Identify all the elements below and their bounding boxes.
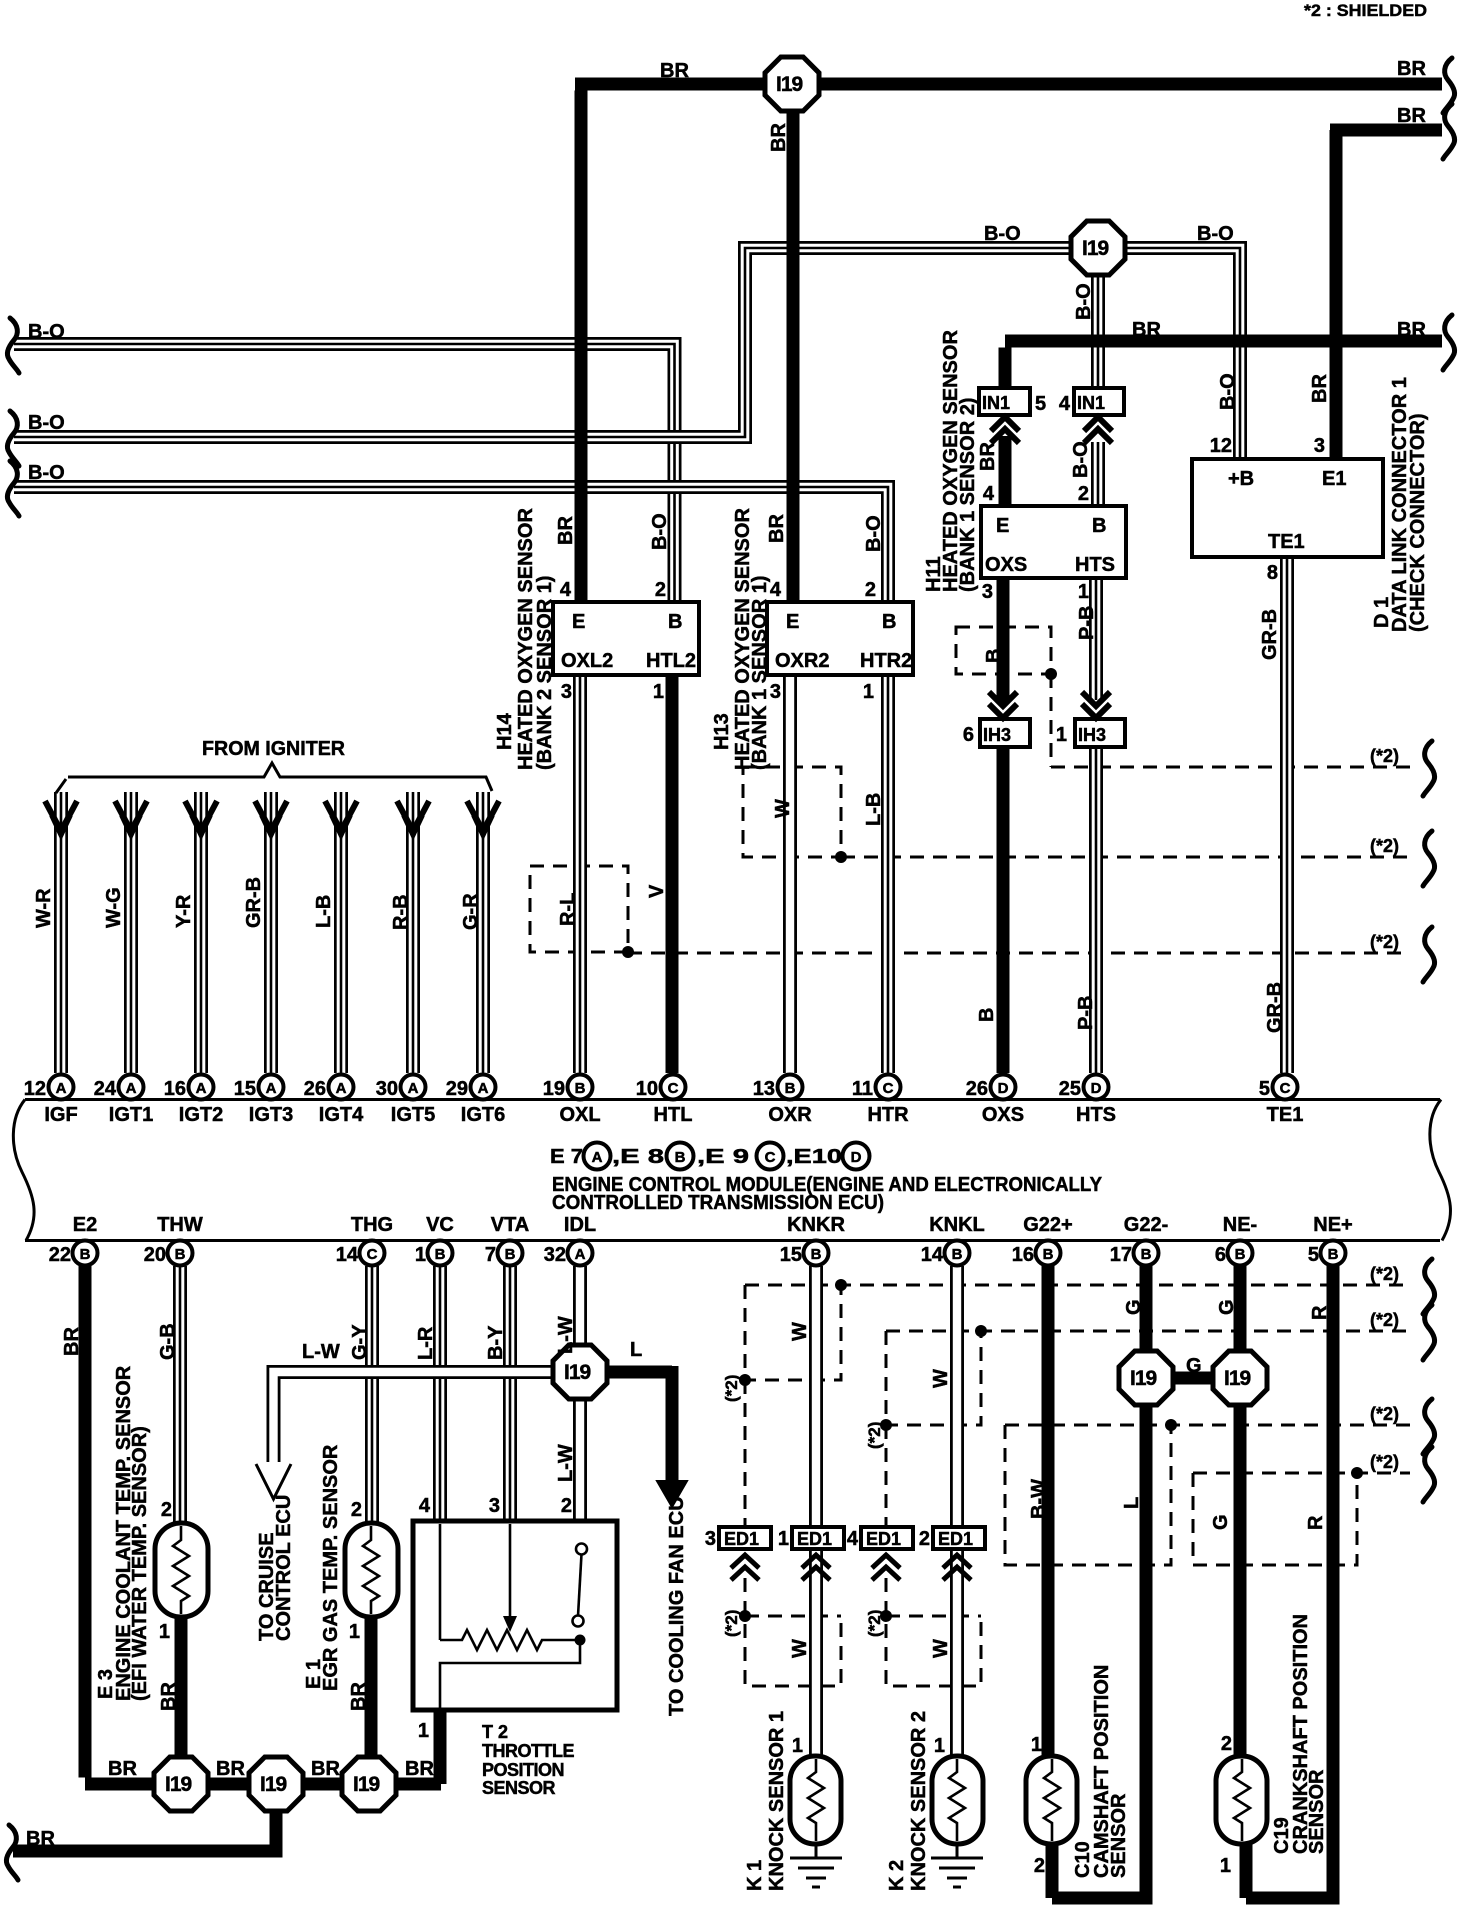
svg-text:B: B (811, 1246, 822, 1263)
wire KNKR double (809, 1266, 823, 1756)
svg-text:POSITION: POSITION (482, 1760, 564, 1780)
ECM band bottom edge (25, 1239, 1440, 1242)
svg-text:C: C (883, 1080, 894, 1097)
svg-text:BR: BR (977, 442, 999, 471)
svg-text:E: E (572, 611, 585, 633)
svg-text:L-W: L-W (555, 1316, 577, 1354)
svg-text:*2 : SHIELDED: *2 : SHIELDED (1304, 1, 1427, 20)
arrow into IN1-4 (1084, 417, 1112, 443)
svg-text:E1: E1 (1322, 468, 1346, 490)
shield dashed box H11 B wire (956, 627, 1051, 674)
arrow to cooling fan ECU (657, 1481, 687, 1507)
svg-text:4: 4 (560, 579, 572, 601)
connector IN1 box 4 (1074, 388, 1124, 415)
brace BR right 2 (1443, 104, 1455, 159)
svg-text:IGT5: IGT5 (391, 1104, 435, 1126)
svg-text:HTR: HTR (867, 1104, 909, 1126)
svg-text:(*2): (*2) (865, 1422, 884, 1449)
svg-text:3: 3 (561, 681, 572, 703)
svg-text:20: 20 (144, 1244, 166, 1266)
shield dashed line (*2) y1425 (1005, 1424, 1410, 1427)
svg-text:1: 1 (1056, 724, 1067, 746)
shield dashed box R-L OXL wire (530, 866, 628, 952)
svg-text:1: 1 (778, 1528, 789, 1550)
svg-text:IGT1: IGT1 (109, 1104, 153, 1126)
svg-text:W: W (789, 1639, 811, 1658)
svg-text:8: 8 (1267, 562, 1278, 584)
svg-text:THW: THW (157, 1214, 203, 1236)
svg-text:(*2): (*2) (1370, 836, 1399, 856)
svg-text:B: B (668, 611, 682, 633)
wire IGT2 from igniter (194, 792, 208, 1073)
svg-text:1: 1 (1031, 1734, 1042, 1756)
svg-text:NE+: NE+ (1313, 1214, 1352, 1236)
wire L to cooling fan ECU (604, 1366, 672, 1484)
svg-text:G: G (1186, 1355, 1202, 1377)
svg-text:1: 1 (863, 681, 874, 703)
svg-text:B-O: B-O (28, 462, 65, 484)
svg-text:5: 5 (1035, 393, 1046, 415)
ECM band top edge (25, 1098, 1440, 1101)
wire NE- G to crankshaft pin2 (1234, 1266, 1247, 1756)
svg-text:G: G (1123, 1299, 1145, 1315)
svg-text:16: 16 (1012, 1244, 1034, 1266)
TPS junction dot (575, 1635, 586, 1646)
pin 5 C TE1 (1273, 1075, 1298, 1100)
svg-text:13: 13 (753, 1078, 775, 1100)
svg-text:G22-: G22- (1124, 1214, 1168, 1236)
sensor K2 knock sensor 2 (932, 1756, 983, 1844)
wire B-O trunk C to H13 pin2 (14, 487, 888, 602)
svg-text:6: 6 (963, 724, 974, 746)
svg-text:3: 3 (770, 681, 781, 703)
shield dashed box KNKL upper (886, 1331, 981, 1528)
svg-text:I19: I19 (260, 1773, 287, 1796)
svg-text:(*2): (*2) (1370, 746, 1399, 766)
svg-text:2: 2 (1221, 1733, 1232, 1755)
svg-text:BR: BR (348, 1682, 370, 1711)
svg-text:(BANK 1 SENSOR 1): (BANK 1 SENSOR 1) (749, 576, 771, 770)
svg-text:OXL: OXL (559, 1104, 600, 1126)
svg-text:I19: I19 (1082, 237, 1109, 260)
svg-text:(*2): (*2) (1370, 1264, 1399, 1284)
svg-text:3: 3 (982, 581, 993, 603)
svg-text:E: E (996, 515, 1009, 537)
shield dashed line (*2) y1473 (1193, 1472, 1410, 1475)
brace *2 y1425 (1423, 1399, 1435, 1454)
shield dashed box OXR wire (743, 767, 841, 857)
connector ED1 box 2 (933, 1527, 985, 1549)
junction dot KNKL low (880, 1610, 892, 1622)
svg-text:6: 6 (1215, 1244, 1226, 1266)
svg-text:BR: BR (405, 1758, 434, 1780)
wire BR IN1 to H11 pin4 (999, 436, 1012, 506)
svg-text:2: 2 (1034, 1855, 1045, 1877)
TPS pin4 wire (439, 1524, 442, 1640)
svg-text:BR: BR (1397, 58, 1426, 80)
wire L-R VC (433, 1266, 447, 1521)
wire OXR double (783, 675, 797, 1073)
wire OXL triple (573, 675, 587, 1073)
wire HTR triple (881, 675, 895, 1073)
svg-text:E 7: E 7 (550, 1146, 583, 1168)
pin 16 B G22+ (1036, 1241, 1061, 1266)
svg-text:K 1: K 1 (744, 1860, 766, 1891)
svg-text:C: C (765, 1149, 776, 1166)
svg-text:B-O: B-O (863, 515, 885, 552)
svg-text:B-O: B-O (28, 412, 65, 434)
svg-text:BR: BR (660, 60, 689, 82)
svg-text:W: W (789, 1322, 811, 1341)
svg-text:I19: I19 (1224, 1367, 1251, 1390)
shield dashed box KNKR lower (745, 1578, 841, 1686)
op H11 heated oxygen sensor box (981, 506, 1126, 578)
svg-text:L-W: L-W (302, 1341, 340, 1363)
pin 30 A IGT5 (401, 1075, 426, 1100)
svg-text:3: 3 (489, 1495, 500, 1517)
sensor E1 EGR gas temp (345, 1523, 398, 1617)
svg-text:1: 1 (418, 1720, 429, 1742)
brace BR right 3 (1443, 315, 1455, 370)
svg-text:5: 5 (1259, 1078, 1270, 1100)
wire NE+ R to crankshaft pin1 (1246, 1266, 1340, 1898)
junction dot KNKR mid (739, 1374, 751, 1386)
arrow IGT5 (397, 801, 429, 834)
svg-text:4: 4 (847, 1528, 859, 1550)
arrow IGT1 (115, 801, 147, 834)
wire GR-B TE1 to ECM (1280, 557, 1294, 1073)
svg-text:L-W: L-W (555, 1444, 577, 1482)
svg-text:2: 2 (561, 1495, 572, 1517)
svg-text:TO COOLING FAN ECU: TO COOLING FAN ECU (666, 1496, 688, 1716)
svg-text:A: A (196, 1080, 207, 1097)
wire IGT5 from igniter (406, 792, 420, 1073)
wire BR octagon I19 branch to H13 (787, 105, 800, 602)
brace *2 y767 (1423, 741, 1435, 796)
connector I19 bottom 1 (154, 1757, 208, 1811)
svg-text:ED1: ED1 (724, 1529, 759, 1549)
svg-text:(*2): (*2) (1370, 1310, 1399, 1330)
junction dot G22 box (1165, 1419, 1177, 1431)
svg-text:L: L (630, 1339, 642, 1361)
connector I19 G22- (1119, 1351, 1173, 1405)
wire BR EGR sensor to I19 (365, 1617, 378, 1760)
pin 17 B G22- (1134, 1241, 1159, 1266)
junction dot KNKL top (975, 1325, 987, 1337)
wire HTL thick (666, 675, 679, 1073)
svg-text:SENSOR: SENSOR (1306, 1769, 1328, 1854)
ECM band right wavy edge (1430, 1100, 1451, 1241)
svg-text:IGT6: IGT6 (461, 1104, 505, 1126)
svg-text:B-O: B-O (1217, 373, 1239, 410)
shield dashed line (*2) y953 (628, 952, 1410, 955)
svg-text:(BANK 1 SENSOR 2): (BANK 1 SENSOR 2) (957, 398, 979, 592)
svg-text:B-Y: B-Y (485, 1325, 507, 1360)
svg-text:OXL2: OXL2 (561, 650, 613, 672)
arrow into IN1-5 (991, 417, 1019, 443)
svg-text:OXR: OXR (768, 1104, 812, 1126)
svg-text:HTR2: HTR2 (860, 650, 912, 672)
svg-text:BR: BR (311, 1758, 340, 1780)
svg-text:(CHECK CONNECTOR): (CHECK CONNECTOR) (1407, 413, 1429, 632)
igniter bracket (56, 763, 492, 793)
svg-text:B: B (976, 1008, 998, 1022)
svg-text:2: 2 (161, 1499, 172, 1521)
svg-text:P-B: P-B (1076, 606, 1098, 640)
pin 26 D OXS (991, 1075, 1016, 1100)
svg-text:24: 24 (94, 1078, 117, 1100)
wire IGF from igniter (54, 792, 68, 1073)
svg-text:3: 3 (1314, 435, 1325, 457)
svg-text:R: R (1305, 1515, 1327, 1530)
svg-text:THG: THG (351, 1214, 393, 1236)
connector I19 bottom 3 (342, 1757, 396, 1811)
wire IGT4 from igniter (334, 792, 348, 1073)
svg-text:4: 4 (770, 579, 782, 601)
svg-text:12: 12 (1210, 435, 1232, 457)
svg-text:2: 2 (351, 1499, 362, 1521)
svg-text:H14: H14 (494, 712, 516, 750)
svg-text:NE-: NE- (1223, 1214, 1257, 1236)
pin 32 A IDL (568, 1241, 593, 1266)
svg-text:B: B (575, 1080, 586, 1097)
shield dashed line (*2) y767 (1051, 674, 1410, 767)
svg-text:IN1: IN1 (1077, 393, 1105, 413)
pin 11 C HTR (876, 1075, 901, 1100)
svg-text:W-R: W-R (33, 888, 55, 928)
svg-text:IGT3: IGT3 (249, 1104, 293, 1126)
svg-text:G: G (1210, 1514, 1232, 1530)
arrow IGT3 (255, 801, 287, 834)
svg-text:B: B (1328, 1246, 1339, 1263)
connector ED1 box 3 (719, 1527, 771, 1549)
H14 pin numbers (159, 393, 1325, 1877)
svg-text:(BANK 2 SENSOR 1): (BANK 2 SENSOR 1) (534, 576, 556, 770)
op D1 data link connector box (1192, 459, 1383, 557)
wire L-W IDL vertical (573, 1266, 587, 1521)
svg-text:C: C (668, 1080, 679, 1097)
svg-text:BR: BR (555, 516, 577, 545)
svg-text:14: 14 (921, 1244, 944, 1266)
svg-text:17: 17 (1110, 1244, 1132, 1266)
wire BR main trunk top (575, 84, 1442, 602)
svg-text:BR: BR (1397, 105, 1426, 127)
svg-text:(*2): (*2) (865, 1610, 884, 1637)
svg-text:BR: BR (26, 1828, 55, 1850)
svg-text:A: A (126, 1080, 137, 1097)
sensor C10 camshaft position (1026, 1756, 1077, 1844)
svg-text:G-B: G-B (157, 1323, 179, 1360)
junction dot R-L shield (622, 946, 634, 958)
pin 10 C HTL (661, 1075, 686, 1100)
svg-text:1: 1 (1078, 581, 1089, 603)
wire G22+ B-W to camshaft sensor (1042, 1266, 1055, 1756)
pin 1 B VC (428, 1241, 453, 1266)
svg-text:B: B (505, 1246, 516, 1263)
wire G-B THW (173, 1266, 187, 1523)
svg-text:HTL2: HTL2 (646, 650, 696, 672)
svg-text:A: A (336, 1080, 347, 1097)
svg-text:W-G: W-G (103, 887, 125, 928)
svg-text:B-O: B-O (1073, 283, 1095, 320)
shield dashed box NE pair (1193, 1473, 1357, 1565)
svg-text:B-O: B-O (649, 513, 671, 550)
wire G-Y THG (365, 1266, 379, 1523)
sensor C19 crankshaft position (1216, 1756, 1267, 1844)
svg-text:HTS: HTS (1076, 1104, 1116, 1126)
svg-text:B: B (1092, 515, 1106, 537)
wire B-Y VTA (503, 1266, 517, 1521)
svg-text:C: C (367, 1246, 378, 1263)
wire G22- L G to camshaft pin2 (1052, 1266, 1153, 1898)
svg-text:W: W (930, 1639, 952, 1658)
brace BR top right (1443, 58, 1455, 113)
connector I19 B-O (1071, 221, 1125, 275)
op H14 heated oxygen sensor box (553, 602, 699, 675)
svg-text:A: A (592, 1149, 603, 1166)
svg-text:32: 32 (544, 1244, 566, 1266)
brace *2 y1473 (1423, 1447, 1435, 1502)
svg-text:I19: I19 (564, 1361, 591, 1384)
wire G between I19 octagons (1170, 1372, 1216, 1385)
svg-text:B: B (175, 1246, 186, 1263)
svg-text:(*2): (*2) (1370, 1452, 1399, 1472)
top pin numbers (24, 1078, 1270, 1100)
shield dashed line (*2) y857 (841, 856, 1410, 859)
svg-text:SENSOR: SENSOR (1108, 1793, 1130, 1878)
pin 24 A IGT1 (119, 1075, 144, 1100)
svg-text:IH3: IH3 (983, 725, 1011, 745)
wire IGT6 from igniter (476, 792, 490, 1073)
pin 19 B OXL (568, 1075, 593, 1100)
svg-text:B: B (952, 1246, 963, 1263)
top pin names (44, 1104, 1303, 1126)
pin 5 B NE+ (1321, 1241, 1346, 1266)
svg-text:B-W: B-W (1028, 1479, 1050, 1519)
svg-text:25: 25 (1059, 1078, 1081, 1100)
svg-text:19: 19 (543, 1078, 565, 1100)
svg-text:A: A (478, 1080, 489, 1097)
svg-text:16: 16 (164, 1078, 186, 1100)
brace *2 y857 (1423, 831, 1435, 886)
svg-text:OXS: OXS (982, 1104, 1024, 1126)
bottom pin numbers (49, 1244, 1319, 1266)
svg-text:(*2): (*2) (722, 1610, 741, 1637)
op H13 heated oxygen sensor box (767, 602, 913, 675)
svg-text:22: 22 (49, 1244, 71, 1266)
brace *2 y1331 (1423, 1305, 1435, 1360)
connector I19 NE- (1213, 1351, 1267, 1405)
svg-text:3: 3 (705, 1528, 716, 1550)
svg-text:B: B (1235, 1246, 1246, 1263)
svg-text:CONTROL ECU: CONTROL ECU (273, 1495, 295, 1641)
svg-text:ED1: ED1 (866, 1529, 901, 1549)
svg-text:KNKL: KNKL (929, 1214, 985, 1236)
ground K1 (790, 1844, 842, 1887)
svg-text:B: B (435, 1246, 446, 1263)
svg-text:G22+: G22+ (1023, 1214, 1072, 1236)
svg-text:A: A (266, 1080, 277, 1097)
svg-text:IGT4: IGT4 (319, 1104, 364, 1126)
connector I19 bottom 2 (249, 1757, 303, 1811)
svg-text:BR: BR (1309, 374, 1331, 403)
junction dot KNKL mid (880, 1419, 892, 1431)
arrow IGT2 (185, 801, 217, 834)
svg-text:SENSOR: SENSOR (482, 1778, 556, 1798)
wire BR E2 to I19 row (85, 1266, 441, 1784)
svg-text:B: B (1043, 1246, 1054, 1263)
svg-text:2: 2 (865, 579, 876, 601)
pin 14 C THG (360, 1241, 385, 1266)
svg-text:7: 7 (485, 1244, 496, 1266)
svg-text:B-O: B-O (1197, 223, 1234, 245)
brace B-O A (7, 318, 19, 373)
svg-text:29: 29 (446, 1078, 468, 1100)
svg-text:12: 12 (24, 1078, 46, 1100)
svg-text:B: B (1141, 1246, 1152, 1263)
svg-text:14: 14 (336, 1244, 359, 1266)
TPS wiper arrow (509, 1524, 512, 1618)
svg-text:OXS: OXS (985, 554, 1027, 576)
svg-text:1: 1 (159, 1621, 170, 1643)
brace BR bottom (6, 1825, 18, 1880)
svg-text:1: 1 (934, 1735, 945, 1757)
svg-text:D: D (1091, 1080, 1102, 1097)
svg-text:H13: H13 (711, 713, 733, 750)
svg-text:1: 1 (792, 1735, 803, 1757)
svg-text:15: 15 (780, 1244, 802, 1266)
connector IN1 box 5 (979, 388, 1030, 415)
pin 13 B OXR (778, 1075, 803, 1100)
svg-text:BR: BR (1132, 319, 1161, 341)
svg-text:1: 1 (1220, 1855, 1231, 1877)
wire BR coolant sensor to I19 (175, 1617, 188, 1760)
svg-text:A: A (56, 1080, 67, 1097)
svg-text:IDL: IDL (564, 1214, 596, 1236)
wire IGT3 from igniter (264, 792, 278, 1073)
svg-text:V: V (646, 884, 668, 898)
connector IH3 box 6 (980, 719, 1030, 747)
sensor E3 engine coolant temp (155, 1523, 208, 1617)
svg-text:BR: BR (1397, 319, 1426, 341)
svg-text:K 2: K 2 (886, 1860, 908, 1891)
wire L-W to cruise control (274, 1372, 581, 1462)
svg-text:BR: BR (768, 123, 790, 152)
wire KNKL double (950, 1266, 964, 1756)
svg-text:(*2): (*2) (1370, 932, 1399, 952)
svg-text:KNKR: KNKR (787, 1214, 845, 1236)
svg-text:G: G (1216, 1299, 1238, 1315)
shield dashed box G22 pair (1005, 1425, 1171, 1565)
wire BR right upper to DLC E1 (1330, 130, 1442, 459)
svg-text:B-O: B-O (28, 321, 65, 343)
arrow into IH3-1 (1082, 692, 1110, 718)
op T2 throttle position sensor box (413, 1521, 617, 1710)
pin 26 A IGT4 (329, 1075, 354, 1100)
junction dot KNKR top (835, 1279, 847, 1291)
wire BR TPS pin1 (434, 1708, 447, 1784)
wire B-O IN1-2 upper (1091, 273, 1105, 388)
svg-text:Y-R: Y-R (173, 894, 195, 928)
svg-text:E: E (786, 611, 799, 633)
svg-text:R-L: R-L (557, 893, 579, 926)
svg-text:TE1: TE1 (1267, 1104, 1304, 1126)
svg-text:,E10: ,E10 (786, 1146, 842, 1168)
svg-text:B: B (785, 1080, 796, 1097)
svg-text:I19: I19 (776, 73, 803, 96)
wire B OXS IH3 to ECM (997, 747, 1010, 1073)
svg-text:+B: +B (1228, 468, 1254, 490)
